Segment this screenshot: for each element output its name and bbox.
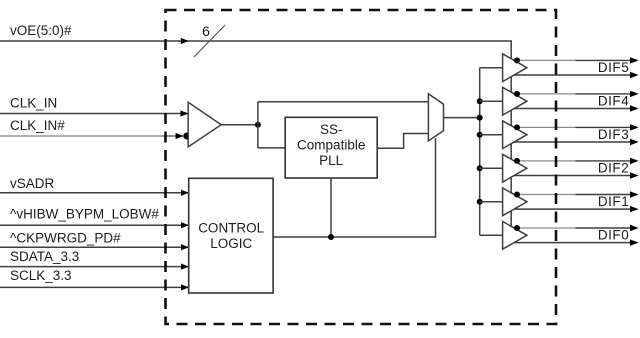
arrowhead ^vHIBW_BYPM_LOBW# <box>181 222 189 228</box>
svg-text:SS-: SS- <box>320 122 343 137</box>
wire control logic to mux select <box>274 138 436 237</box>
wire output distribution rail <box>479 68 481 236</box>
wire SDATA_3.3 <box>0 266 189 268</box>
svg-text:^vHIBW_BYPM_LOBW#: ^vHIBW_BYPM_LOBW# <box>10 207 159 222</box>
node A junction dot <box>255 122 261 128</box>
wire CLK_IN <box>0 113 188 115</box>
svg-text:DIF0: DIF0 <box>598 228 629 243</box>
wire PLL bottom to control net <box>330 178 332 237</box>
wire vOE bus horizontal + enable vertical through output buffers <box>0 41 511 226</box>
output buffer DIF2 <box>503 154 639 182</box>
wire rail stub to DIF2 buffer <box>480 167 503 169</box>
output buffer DIF3 <box>503 121 639 149</box>
wire CLK_IN# <box>0 135 162 137</box>
junction dot control net <box>328 234 334 240</box>
junction dot rail DIF1 <box>477 199 483 205</box>
svg-text:vOE(5:0)#: vOE(5:0)# <box>10 23 72 38</box>
wire rail stub to DIF4 buffer <box>480 100 503 102</box>
wire ^vHIBW_BYPM_LOBW# <box>0 224 189 226</box>
wire rail stub to DIF3 buffer <box>480 134 503 136</box>
wire SCLK_3.3 <box>0 286 189 288</box>
junction dot rail DIF2 <box>477 165 483 171</box>
svg-text:vSADR: vSADR <box>10 176 55 191</box>
wire rail stub to DIF1 buffer <box>480 201 503 203</box>
mux M1 (clock select) <box>428 94 443 141</box>
svg-text:DIF5: DIF5 <box>598 60 629 75</box>
svg-text:DIF2: DIF2 <box>598 160 629 175</box>
svg-text:Compatible: Compatible <box>297 137 365 152</box>
junction dot mux-rail <box>477 115 483 121</box>
wire rail stub to DIF5 buffer <box>480 67 503 69</box>
svg-text:^CKPWRGD_PD#: ^CKPWRGD_PD# <box>10 231 121 246</box>
wire to PLL input <box>258 147 285 149</box>
wire vSADR <box>0 192 189 194</box>
wire top rail to mux input 0 <box>258 101 429 103</box>
bus width slash <box>194 25 225 57</box>
CONTROL LOGIC block <box>189 178 273 293</box>
wire rail stub to DIF0 buffer <box>480 234 503 236</box>
svg-text:PLL: PLL <box>319 153 344 168</box>
arrowhead ^CKPWRGD_PD# <box>181 244 189 250</box>
junction dot rail DIF3 <box>477 132 483 138</box>
output buffer DIF0 <box>503 221 639 249</box>
output buffer DIF1 <box>503 188 639 216</box>
wire node A vertical <box>257 102 259 148</box>
output buffer DIF5 <box>503 54 639 82</box>
svg-text:SDATA_3.3: SDATA_3.3 <box>10 249 79 264</box>
arrowhead SDATA_3.3 <box>181 264 189 270</box>
svg-text:SCLK_3.3: SCLK_3.3 <box>10 268 72 283</box>
svg-text:DIF4: DIF4 <box>598 93 629 108</box>
junction dot CLK_IN# on buffer input <box>183 133 190 140</box>
wire PLL output to mux input 1 (stepped) <box>377 134 428 149</box>
junction dot rail DIF4 <box>477 98 483 104</box>
wire ^CKPWRGD_PD# <box>0 246 189 248</box>
wire U1 output to node A <box>221 124 258 126</box>
arrowhead CLK_IN# <box>176 133 184 139</box>
SS-Compatible PLL block <box>285 117 377 178</box>
svg-text:CONTROL: CONTROL <box>198 221 264 236</box>
svg-text:DIF3: DIF3 <box>598 127 629 142</box>
svg-text:LOGIC: LOGIC <box>210 236 252 251</box>
svg-text:6: 6 <box>202 23 210 39</box>
arrowhead CLK_IN <box>180 110 188 116</box>
svg-text:DIF1: DIF1 <box>598 194 629 209</box>
wire mux output to rail <box>444 117 480 119</box>
svg-text:CLK_IN#: CLK_IN# <box>10 118 65 133</box>
output buffer DIF4 <box>503 87 639 115</box>
chip boundary (dashed) <box>166 10 557 324</box>
arrowhead vOE into chip <box>181 38 189 44</box>
arrowhead SCLK_3.3 <box>181 284 189 290</box>
svg-text:CLK_IN: CLK_IN <box>10 96 57 111</box>
arrowhead vSADR <box>181 190 189 196</box>
input buffer U1 (CLK differential receiver) <box>188 102 221 147</box>
